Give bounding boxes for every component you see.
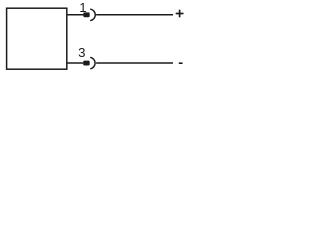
minus terminal <box>179 62 183 64</box>
plus terminal: horizontal stroke <box>176 13 184 15</box>
plus terminal: vertical stroke <box>179 10 181 18</box>
component box U1 <box>7 8 67 69</box>
wire pin1 right segment <box>96 14 173 16</box>
connector J1 plug bar <box>83 12 89 17</box>
connector J2 plug bar <box>83 61 90 66</box>
wire pin1 left segment <box>67 14 84 16</box>
svg-text:3: 3 <box>78 45 85 60</box>
connector J2 socket arc <box>91 58 95 69</box>
wire pin3 right segment <box>96 62 173 64</box>
wire pin3 left segment <box>67 62 83 64</box>
connector J1 socket arc <box>91 9 95 20</box>
